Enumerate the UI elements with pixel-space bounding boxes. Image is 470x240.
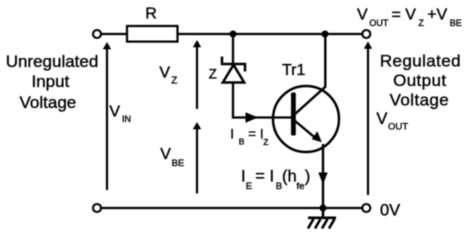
svg-text:B: B [239, 136, 245, 146]
transistor base bar [291, 93, 296, 136]
svg-text:Voltage: Voltage [20, 93, 77, 112]
current arrow I_E on emitter wire [318, 173, 327, 185]
svg-text:V: V [160, 146, 171, 163]
svg-text:Voltage: Voltage [390, 90, 450, 109]
svg-text:Input: Input [31, 72, 69, 91]
zener diode Z cathode bar [222, 57, 245, 72]
svg-text:): ) [305, 168, 311, 186]
current arrow on base wire [246, 112, 259, 123]
svg-text:Z: Z [171, 76, 177, 87]
arrow V_OUT (right side) [367, 46, 369, 195]
zener diode Z anode triangle [223, 65, 244, 83]
svg-text:V: V [109, 104, 120, 121]
svg-text:V: V [159, 65, 170, 82]
svg-text:Unregulated: Unregulated [6, 52, 99, 71]
arrow V_Z [196, 44, 198, 109]
terminal: output (top right) [362, 30, 370, 38]
transistor Tr1 circle [273, 86, 339, 152]
svg-text:Z: Z [418, 18, 424, 28]
wire: top rail down to zener cathode [232, 34, 234, 64]
node: collector junction on top rail [322, 31, 329, 38]
wire: input terminal to resistor R [101, 33, 129, 35]
svg-text:Z: Z [209, 67, 217, 82]
wire: zener anode down and right to base [233, 83, 273, 118]
wire: emitter down to bottom rail [322, 144, 324, 208]
svg-text:BE: BE [450, 18, 462, 28]
arrow V_BE [196, 126, 198, 194]
svg-text:+V: +V [427, 7, 447, 24]
wire: resistor to output terminal (top rail) [178, 33, 362, 35]
svg-text:(h: (h [282, 168, 297, 186]
svg-text:R: R [145, 6, 157, 23]
svg-text:0V: 0V [380, 201, 400, 219]
svg-text:I: I [230, 126, 234, 141]
transistor base lead [273, 116, 292, 118]
svg-text:Output: Output [393, 71, 446, 90]
node: zener/base junction on top rail [230, 31, 237, 38]
svg-text:= I: = I [255, 168, 274, 186]
svg-text:OUT: OUT [369, 18, 389, 28]
arrow V_IN [106, 46, 108, 190]
resistor R [127, 26, 178, 42]
svg-text:Regulated: Regulated [380, 51, 461, 70]
terminal: bottom left [93, 204, 101, 212]
svg-text:fe: fe [297, 181, 305, 192]
svg-text:V: V [376, 110, 387, 128]
transistor collector lead [295, 35, 326, 115]
terminal: input (top left) [93, 30, 101, 38]
svg-text:E: E [246, 181, 252, 192]
svg-text:OUT: OUT [388, 122, 408, 133]
svg-text:V: V [357, 7, 368, 24]
svg-text:Tr1: Tr1 [282, 62, 306, 79]
svg-text:Z: Z [263, 137, 268, 147]
transistor emitter lead [295, 121, 317, 139]
node: emitter/ground junction [320, 205, 327, 212]
terminal: 0V bottom right [362, 204, 370, 212]
svg-text:IN: IN [122, 114, 131, 124]
transistor emitter arrowhead [312, 131, 322, 142]
svg-text:= V: = V [392, 7, 417, 24]
ground symbol [308, 208, 336, 229]
bottom rail wire [101, 207, 363, 209]
svg-text:BE: BE [172, 158, 185, 169]
svg-text:= I: = I [248, 126, 263, 141]
